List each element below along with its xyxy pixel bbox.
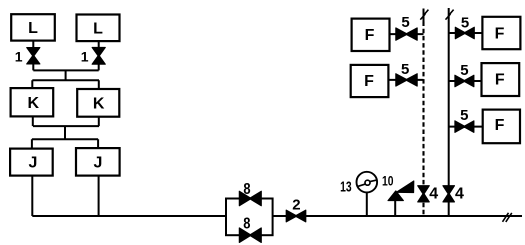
svg-text:1: 1: [81, 48, 89, 64]
svg-text:L: L: [93, 20, 103, 37]
svg-text:1: 1: [15, 48, 23, 64]
svg-text:5: 5: [401, 14, 409, 31]
svg-text:F: F: [495, 25, 505, 42]
svg-text:10: 10: [382, 174, 394, 189]
svg-text:J: J: [93, 155, 102, 172]
svg-text:5: 5: [460, 107, 468, 124]
svg-text:4: 4: [455, 186, 464, 203]
svg-text:5: 5: [460, 62, 468, 79]
svg-text:4: 4: [429, 186, 438, 203]
svg-text:8: 8: [243, 181, 251, 198]
svg-text:5: 5: [461, 14, 469, 31]
svg-text:F: F: [495, 117, 505, 134]
svg-text:J: J: [29, 155, 38, 172]
svg-text:L: L: [28, 20, 38, 37]
svg-text:F: F: [365, 27, 375, 44]
svg-text:5: 5: [401, 61, 409, 78]
svg-text:K: K: [28, 95, 40, 112]
svg-text:2: 2: [292, 197, 300, 214]
svg-text:K: K: [93, 96, 105, 113]
svg-text:8: 8: [243, 215, 251, 232]
svg-text:F: F: [495, 72, 505, 89]
svg-text:F: F: [364, 73, 374, 90]
svg-text:13: 13: [340, 179, 352, 195]
